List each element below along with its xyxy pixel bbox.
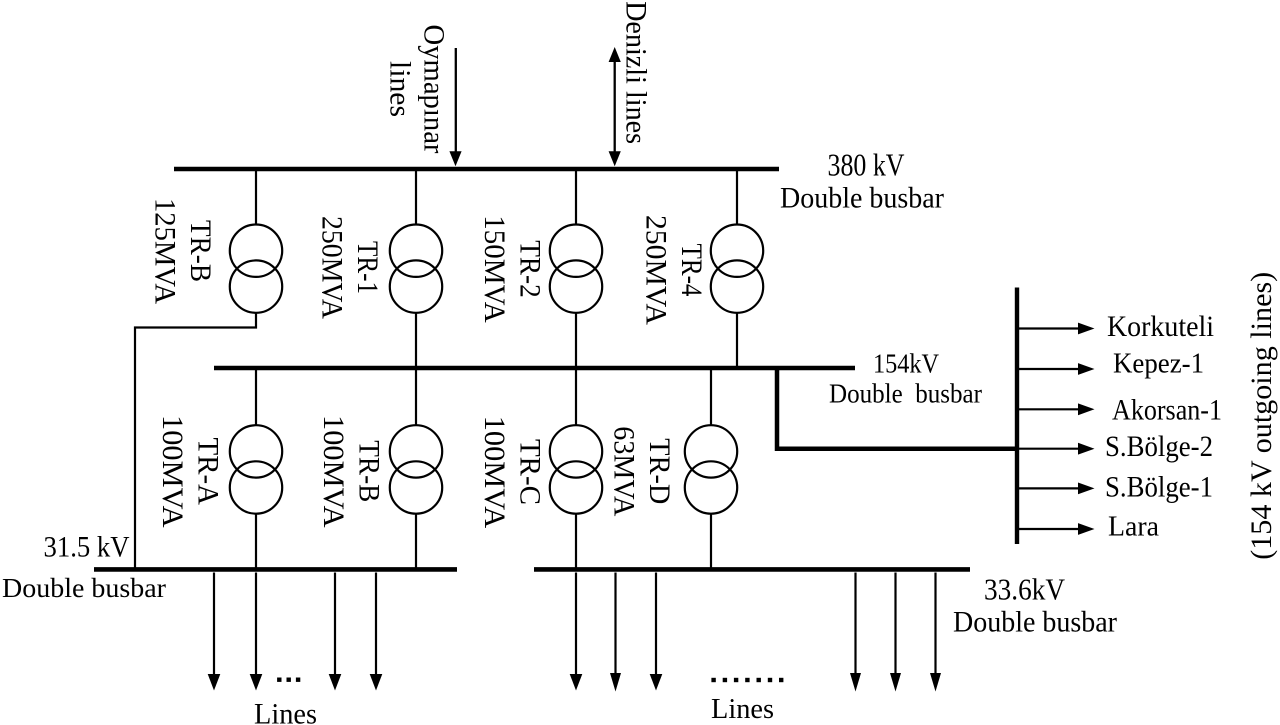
wire 380kV busbar to TR-1	[415, 171, 417, 225]
svg-text:TR-4: TR-4	[675, 244, 708, 297]
svg-text:Lines: Lines	[254, 698, 317, 725]
svg-text:150MVA: 150MVA	[478, 215, 511, 323]
wire 380kV busbar to TR-4	[736, 171, 738, 225]
svg-text:S.Bölge-1: S.Bölge-1	[1105, 471, 1213, 504]
svg-text:TR-1: TR-1	[351, 241, 384, 294]
arrow outgoing line 1 (31.5kV)	[208, 573, 221, 691]
wire 380kV busbar to TR-B	[255, 171, 257, 225]
wire 154kV busbar to TR-C	[575, 370, 577, 426]
wire 380kV busbar to TR-2	[575, 171, 577, 225]
arrow Oymapinar incoming line	[449, 48, 461, 166]
svg-text:Korkuteli: Korkuteli	[1107, 310, 1214, 343]
svg-text:S.Bölge-2: S.Bölge-2	[1105, 430, 1213, 463]
svg-text:250MVA: 250MVA	[640, 215, 673, 325]
svg-text:33.6kV: 33.6kV	[984, 572, 1066, 607]
svg-text:TR-B: TR-B	[352, 440, 385, 502]
arrow outgoing line 2 (33.6kV)	[610, 573, 621, 692]
busbar 154kV double busbar	[214, 366, 855, 370]
svg-text:TR-2: TR-2	[514, 240, 547, 298]
transformer TR-B 100MVA	[390, 425, 442, 514]
arrow outgoing line 2 (31.5kV)	[250, 573, 263, 691]
arrow outgoing line 4 (31.5kV)	[370, 573, 383, 691]
svg-text:125MVA: 125MVA	[148, 198, 181, 304]
svg-text:63MVA: 63MVA	[608, 426, 641, 516]
label TR-A 100MVA	[156, 415, 225, 528]
svg-text:31.5 kV: 31.5 kV	[44, 530, 130, 563]
wire 154kV busbar to TR-B (100MVA)	[415, 370, 417, 426]
wire TR-1 to 154kV busbar	[415, 313, 417, 366]
svg-text:100MVA: 100MVA	[317, 415, 350, 528]
arrow Denizli lines (double-headed)	[609, 47, 621, 166]
arrow Akorsan-1 feeder	[1019, 403, 1095, 415]
wire TR-A to 31.5kV busbar	[255, 514, 257, 569]
arrow Korkuteli feeder	[1019, 323, 1095, 335]
svg-text:100MVA: 100MVA	[156, 415, 189, 528]
label TR-4 250MVA	[640, 215, 709, 325]
svg-text:Akorsan-1: Akorsan-1	[1112, 394, 1222, 427]
arrow outgoing line 3 (31.5kV)	[329, 573, 342, 691]
label TR-C 100MVA	[478, 416, 547, 529]
busbar 380kV double busbar	[174, 167, 779, 171]
label TR-D 63MVA	[608, 426, 677, 516]
wire 154kV busbar to outgoing bus (thick L)	[777, 368, 1019, 449]
wire TR-B to 31.5kV busbar (L-shaped)	[135, 313, 256, 569]
wire 154kV busbar to TR-A	[255, 370, 257, 426]
arrow outgoing line 3 (33.6kV)	[650, 573, 663, 691]
label TR-1 250MVA	[316, 216, 385, 319]
busbar 154kV outgoing lines bus	[1015, 288, 1019, 545]
ellipsis dots (31.5kV lines)	[277, 678, 300, 682]
arrow outgoing line 1 (33.6kV)	[570, 573, 583, 691]
arrow S.Bolge-2 feeder	[1019, 443, 1095, 455]
svg-text:lines: lines	[384, 61, 417, 117]
svg-text:Lines: Lines	[711, 694, 774, 725]
svg-text:Double busbar: Double busbar	[953, 606, 1117, 639]
label TR-2 150MVA	[478, 215, 547, 323]
transformer TR-B 125MVA	[230, 225, 282, 313]
wire TR-2 to 154kV busbar	[575, 313, 577, 366]
transformer TR-A 100MVA	[230, 425, 282, 514]
svg-text:Oymapınar: Oymapınar	[418, 25, 451, 154]
arrow Lara feeder	[1019, 523, 1095, 535]
svg-text:Lara: Lara	[1108, 512, 1159, 543]
arrow Kepez-1 feeder	[1019, 363, 1095, 375]
transformer TR-2 150MVA	[550, 225, 602, 313]
wire TR-B(100MVA) to 31.5kV busbar	[415, 514, 417, 569]
label TR-B 125MVA	[148, 198, 217, 304]
arrow outgoing line 5 (33.6kV)	[890, 573, 901, 692]
ellipsis dots (33.6kV lines)	[711, 678, 783, 682]
wire TR-4 to 154kV busbar	[736, 313, 738, 366]
busbar 33.6kV double busbar	[534, 567, 970, 572]
transformer TR-C 100MVA	[550, 425, 602, 514]
arrow outgoing line 6 (33.6kV)	[930, 573, 941, 692]
wire TR-D to 33.6kV busbar	[710, 514, 712, 569]
svg-text:380 kV: 380 kV	[828, 147, 905, 183]
svg-text:Double busbar: Double busbar	[2, 572, 166, 603]
svg-text:Denizli lines: Denizli lines	[619, 1, 652, 144]
svg-text:TR-C: TR-C	[514, 439, 547, 505]
transformer TR-1 250MVA	[390, 225, 442, 313]
label TR-B 100MVA	[317, 415, 386, 528]
svg-text:TR-B: TR-B	[184, 220, 217, 282]
transformer TR-4 250MVA	[711, 225, 763, 313]
label Oymapinar lines	[384, 25, 451, 154]
busbar 31.5kV double busbar	[94, 567, 457, 572]
svg-text:Double busbar: Double busbar	[829, 377, 982, 408]
arrow S.Bolge-1 feeder	[1019, 483, 1095, 495]
svg-text:100MVA: 100MVA	[478, 416, 511, 529]
svg-text:TR-D: TR-D	[643, 438, 676, 504]
svg-text:Kepez-1: Kepez-1	[1113, 349, 1204, 380]
svg-text:(154 kV outgoing lines): (154 kV outgoing lines)	[1245, 272, 1278, 560]
svg-text:TR-A: TR-A	[192, 438, 225, 506]
svg-text:154kV: 154kV	[873, 349, 939, 379]
svg-text:Double busbar: Double busbar	[780, 182, 944, 215]
transformer TR-D 63MVA	[685, 425, 737, 514]
svg-text:250MVA: 250MVA	[316, 216, 349, 319]
arrow outgoing line 4 (33.6kV)	[850, 573, 861, 692]
wire 154kV busbar to TR-D	[710, 370, 712, 426]
wire TR-C to 33.6kV busbar	[575, 514, 577, 569]
